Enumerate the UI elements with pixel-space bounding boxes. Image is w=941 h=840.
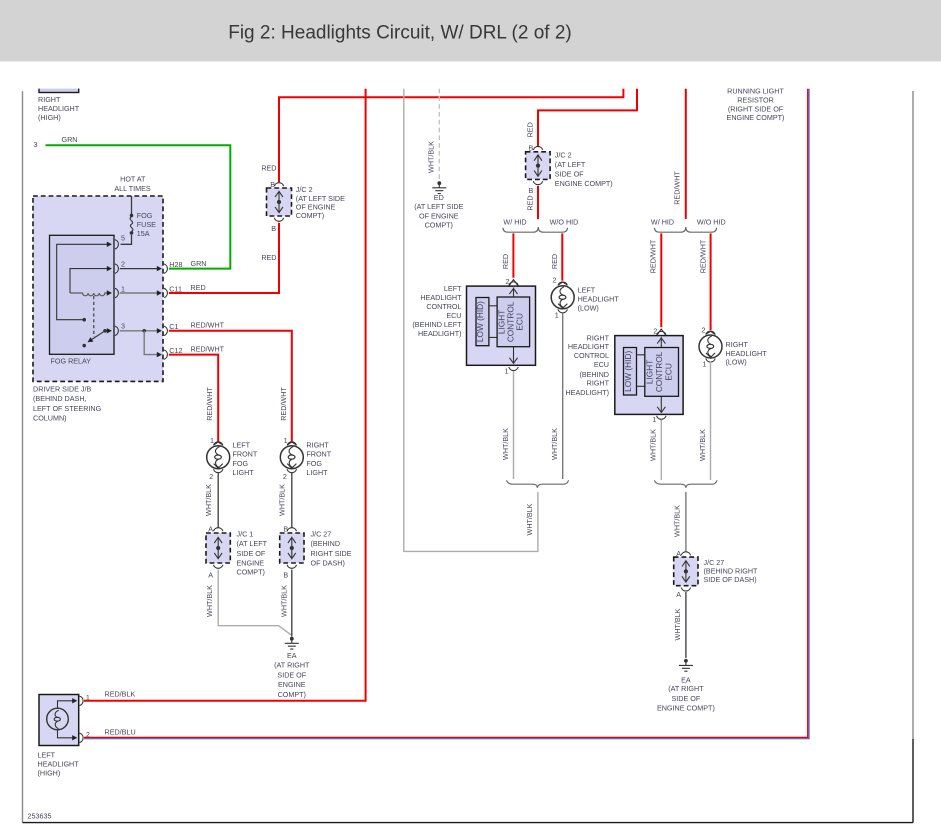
svg-text:WHT/BLK: WHT/BLK — [501, 428, 510, 460]
svg-text:(LOW): (LOW) — [578, 304, 599, 313]
relay switch blade — [90, 331, 105, 341]
svg-text:B: B — [271, 224, 276, 233]
fog fuse 15A — [130, 211, 156, 238]
wire relay pin1 to C11 — [120, 292, 161, 294]
svg-text:RED/WHT: RED/WHT — [698, 239, 707, 273]
svg-text:J/C 2: J/C 2 — [296, 185, 313, 194]
svg-text:(HIGH): (HIGH) — [38, 769, 61, 778]
svg-text:RED/WHT: RED/WHT — [205, 387, 214, 421]
svg-text:1: 1 — [505, 366, 509, 375]
junction connector J/C 1 — [214, 528, 223, 532]
wire GRN from right headlight high pin 3 to H28 — [46, 145, 231, 268]
svg-text:SIDE OF: SIDE OF — [672, 694, 701, 703]
svg-text:5: 5 — [121, 234, 125, 243]
svg-text:ED: ED — [434, 193, 444, 202]
svg-text:RIGHT: RIGHT — [306, 440, 329, 449]
svg-text:HEADLIGHT: HEADLIGHT — [568, 342, 610, 351]
svg-text:2: 2 — [553, 275, 557, 284]
svg-text:ALL TIMES: ALL TIMES — [114, 184, 151, 193]
svg-text:(BEHIND: (BEHIND — [579, 370, 609, 379]
svg-text:RED/WHT: RED/WHT — [673, 171, 682, 205]
svg-text:OF DASH): OF DASH) — [311, 558, 345, 567]
svg-text:WHT/BLK: WHT/BLK — [673, 608, 682, 640]
wire RED w/ HID branch to left ECU — [512, 233, 514, 277]
ground ED — [432, 181, 446, 193]
svg-text:(AT RIGHT: (AT RIGHT — [668, 684, 704, 693]
svg-text:RED: RED — [525, 195, 534, 210]
svg-text:FUSE: FUSE — [137, 220, 156, 229]
wire WHT/BLK merged left to off-page top — [404, 89, 538, 552]
svg-text:SIDE OF DASH): SIDE OF DASH) — [704, 575, 757, 584]
svg-text:COMPT): COMPT) — [296, 211, 324, 220]
driver side J/B dashed box — [33, 196, 163, 381]
svg-text:FOG: FOG — [306, 459, 322, 468]
svg-text:RESISTOR: RESISTOR — [737, 96, 774, 105]
svg-text:COMPT): COMPT) — [237, 568, 265, 577]
svg-text:COMPT): COMPT) — [425, 221, 453, 230]
svg-text:RED/WHT: RED/WHT — [279, 387, 288, 421]
ECU inner box LOW (HID) — [476, 298, 489, 346]
junction connector J/C 27 left — [287, 528, 296, 532]
svg-text:J/C 1: J/C 1 — [237, 530, 254, 539]
svg-text:HEADLIGHT: HEADLIGHT — [38, 760, 80, 769]
svg-text:RED: RED — [191, 283, 206, 292]
ECU internal arrow line — [513, 288, 515, 298]
wire WHT/BLK dashed to ground ED — [438, 89, 440, 181]
svg-text:WHT/BLK: WHT/BLK — [426, 141, 435, 173]
svg-text:LEFT OF STEERING: LEFT OF STEERING — [33, 404, 102, 413]
wire WHT/BLK left fog to J/C1 — [217, 472, 219, 528]
wire WHT/BLK left ECU pin1 down — [513, 371, 515, 479]
svg-text:RED: RED — [261, 253, 276, 262]
svg-text:HEADLIGHT): HEADLIGHT) — [418, 329, 462, 338]
svg-text:SIDE OF: SIDE OF — [277, 670, 306, 679]
svg-text:LEFT: LEFT — [444, 284, 462, 293]
svg-text:GRN: GRN — [62, 135, 78, 144]
svg-text:COLUMN): COLUMN) — [33, 414, 67, 423]
pin 1 left ECU — [509, 367, 518, 371]
svg-text:H28: H28 — [169, 260, 182, 269]
svg-text:COMPT): COMPT) — [278, 690, 306, 699]
left headlight control ECU box — [467, 286, 536, 365]
wire RED top run to J/C2 left — [279, 89, 623, 183]
wire RED w/o HID branch to left low bulb — [561, 233, 563, 280]
svg-text:15A: 15A — [137, 229, 150, 238]
svg-text:W/ HID: W/ HID — [503, 218, 526, 227]
svg-text:FOG: FOG — [137, 211, 153, 220]
wire RED/BLU red strand — [84, 89, 808, 738]
wire RED/WHT from top right run — [685, 89, 687, 219]
left headlight high internal wires — [58, 701, 76, 738]
svg-text:2: 2 — [121, 259, 125, 268]
relay pin 5 arrow and arc — [107, 242, 112, 247]
svg-text:ENGINE COMPT): ENGINE COMPT) — [727, 113, 785, 122]
right ECU internal arrow line — [660, 337, 662, 348]
svg-text:RED: RED — [525, 122, 534, 137]
svg-text:RED/WHT: RED/WHT — [649, 239, 658, 273]
svg-text:RED/WHT: RED/WHT — [191, 345, 225, 354]
svg-text:1: 1 — [210, 436, 214, 445]
svg-text:EA: EA — [681, 676, 691, 685]
wire WHT/BLK J/C27 left to ground EA — [291, 570, 293, 637]
junction dot relay contact — [82, 318, 86, 322]
pin 1 right ECU — [657, 416, 666, 420]
svg-text:FRONT: FRONT — [306, 450, 331, 459]
wire RED/BLU blue strand — [84, 89, 809, 739]
wire relay pin3 to C1 — [120, 330, 161, 332]
svg-text:RIGHT: RIGHT — [726, 340, 749, 349]
left headlight high bulb circle — [47, 708, 69, 730]
svg-text:ECU: ECU — [594, 360, 609, 369]
svg-text:OF ENGINE: OF ENGINE — [419, 212, 459, 221]
wire RED/BLK left headlight high pin1 to off-page top — [84, 89, 366, 701]
svg-text:(AT LEFT: (AT LEFT — [555, 160, 586, 169]
svg-text:(BEHIND: (BEHIND — [311, 539, 341, 548]
frame right border grey upper — [912, 91, 914, 739]
svg-text:WHT/BLK: WHT/BLK — [279, 585, 288, 617]
frame left border — [22, 91, 24, 822]
svg-text:(BEHIND LEFT: (BEHIND LEFT — [412, 320, 462, 329]
pin 1 left headlight high — [72, 698, 77, 703]
svg-text:EA: EA — [287, 651, 297, 660]
wire WHT/BLK right low bulb pin1 down — [710, 361, 712, 480]
wire WHT/BLK J/C1 to ground EA — [218, 570, 291, 636]
svg-text:RED/BLK: RED/BLK — [105, 690, 136, 699]
svg-text:2: 2 — [702, 326, 706, 335]
right headlight (high) clipped box — [38, 80, 80, 122]
wire RED/WHT w/ HID branch to right ECU — [660, 233, 662, 327]
wire WHT/BLK left low bulb pin1 down — [562, 312, 564, 479]
relay internal wire pin2 to coil — [70, 269, 110, 293]
wire fuse to relay pin 5 — [121, 235, 132, 245]
junction connector J/C 27 right — [681, 552, 690, 556]
svg-text:WHT/BLK: WHT/BLK — [649, 429, 658, 461]
svg-text:RIGHT: RIGHT — [38, 95, 61, 104]
right headlight (low) bulb — [699, 331, 722, 362]
svg-text:ENGINE COMPT): ENGINE COMPT) — [555, 179, 613, 188]
svg-text:1: 1 — [121, 284, 125, 293]
svg-text:A: A — [208, 571, 213, 580]
svg-text:J/C 2: J/C 2 — [555, 151, 572, 160]
brace merge right group — [654, 480, 717, 488]
brace split right group — [655, 227, 717, 232]
junction dot on pin3 wire — [142, 329, 146, 333]
left front fog light — [207, 442, 230, 473]
svg-text:B: B — [529, 186, 534, 195]
svg-text:3: 3 — [121, 321, 125, 330]
svg-text:DRIVER SIDE J/B: DRIVER SIDE J/B — [33, 384, 92, 393]
wire from box top to fog fuse — [131, 196, 133, 214]
svg-text:1: 1 — [555, 310, 559, 319]
svg-text:(HIGH): (HIGH) — [38, 113, 61, 122]
svg-text:RED/BLU: RED/BLU — [105, 727, 136, 736]
svg-text:RED: RED — [261, 163, 276, 172]
junction connector J/C 2 right — [533, 146, 542, 150]
wire relay pin2 to H28 — [120, 268, 161, 270]
svg-text:RIGHT: RIGHT — [587, 333, 610, 342]
svg-text:ECU: ECU — [663, 363, 673, 381]
svg-text:HEADLIGHT): HEADLIGHT) — [565, 388, 609, 397]
svg-text:RED/WHT: RED/WHT — [191, 321, 225, 330]
frame bottom border — [23, 822, 914, 824]
brace split left group — [503, 227, 567, 232]
relay pin 1 arrow and arc — [107, 290, 112, 295]
svg-text:ENGINE COMPT): ENGINE COMPT) — [657, 704, 715, 713]
wire RED top to J/C2 right — [538, 89, 637, 147]
relay pin 3 wire arrow and arc — [105, 330, 110, 332]
wire RED/WHT C12 to left front fog light — [169, 355, 218, 442]
relay pin 2 arrow and arc — [107, 266, 112, 271]
svg-text:WHT/BLK: WHT/BLK — [277, 484, 286, 516]
svg-text:(AT RIGHT: (AT RIGHT — [274, 661, 310, 670]
svg-text:LIGHT: LIGHT — [233, 468, 255, 477]
pin 2 left headlight high — [72, 735, 77, 740]
svg-text:LIGHT: LIGHT — [306, 468, 328, 477]
svg-text:HEADLIGHT: HEADLIGHT — [38, 104, 80, 113]
svg-text:3: 3 — [34, 140, 38, 149]
svg-text:FOG: FOG — [233, 459, 249, 468]
svg-text:FRONT: FRONT — [233, 450, 258, 459]
svg-text:LOW (HID): LOW (HID) — [623, 351, 633, 392]
wire RED/WHT C1 to right front fog light — [169, 331, 292, 442]
frame right border black lower — [912, 739, 914, 823]
svg-text:(AT LEFT: (AT LEFT — [237, 539, 268, 548]
svg-text:CONTROL: CONTROL — [574, 351, 609, 360]
svg-text:253635: 253635 — [28, 811, 52, 820]
svg-text:W/O HID: W/O HID — [550, 218, 579, 227]
svg-text:WHT/BLK: WHT/BLK — [205, 585, 214, 617]
svg-text:WHT/BLK: WHT/BLK — [204, 484, 213, 516]
ECU inner box LIGHT CONTROL ECU — [497, 297, 529, 347]
svg-text:Fig 2: Headlights Circuit, W/: Fig 2: Headlights Circuit, W/ DRL (2 of … — [228, 23, 572, 44]
right ECU inner box LIGHT CONTROL ECU — [645, 348, 679, 397]
svg-text:ECU: ECU — [515, 313, 525, 331]
ground EA right — [679, 659, 693, 671]
svg-text:RIGHT: RIGHT — [587, 379, 610, 388]
svg-text:LEFT: LEFT — [578, 285, 596, 294]
svg-text:CONTROL: CONTROL — [426, 302, 461, 311]
right headlight control ECU box — [615, 336, 683, 415]
wire WHT/BLK right fog to J/C27 — [291, 472, 293, 528]
svg-text:2: 2 — [283, 472, 287, 481]
ECU inner links — [489, 306, 497, 338]
right ECU inner links — [637, 355, 645, 387]
svg-text:W/ HID: W/ HID — [651, 218, 674, 227]
svg-text:2: 2 — [209, 472, 213, 481]
svg-text:RIGHT SIDE: RIGHT SIDE — [311, 549, 352, 558]
fog relay box — [50, 235, 115, 354]
svg-text:HOT AT: HOT AT — [120, 175, 146, 184]
svg-text:1: 1 — [703, 360, 707, 369]
wire junction to C12 — [144, 331, 160, 355]
svg-text:WHT/BLK: WHT/BLK — [698, 429, 707, 461]
right ECU inner box LOW (HID) — [624, 348, 637, 396]
wire RED J/C2 right down to brace — [537, 186, 539, 219]
relay switch contact dots — [103, 329, 107, 333]
svg-text:WHT/BLK: WHT/BLK — [550, 428, 559, 460]
junction connector J/C 2 left — [274, 183, 283, 187]
svg-text:LEFT: LEFT — [38, 751, 56, 760]
wire WHT/BLK right ECU pin1 down — [660, 420, 662, 480]
svg-text:J/C 27: J/C 27 — [311, 530, 332, 539]
wire RED J/C2 left to C11 — [169, 223, 279, 293]
svg-text:(BEHIND DASH,: (BEHIND DASH, — [33, 394, 87, 403]
svg-text:HEADLIGHT: HEADLIGHT — [420, 293, 462, 302]
wire RED/WHT w/o HID branch to right low bulb — [710, 233, 712, 330]
svg-text:HEADLIGHT: HEADLIGHT — [726, 349, 768, 358]
wire WHT/BLK J/C27 right to ground EA — [685, 592, 687, 658]
svg-text:A: A — [676, 590, 681, 599]
svg-text:GRN: GRN — [191, 259, 207, 268]
svg-text:(RIGHT SIDE OF: (RIGHT SIDE OF — [728, 104, 784, 113]
svg-text:WHT/BLK: WHT/BLK — [673, 505, 682, 537]
svg-text:W/O HID: W/O HID — [697, 218, 726, 227]
svg-text:ECU: ECU — [446, 311, 461, 320]
svg-text:1: 1 — [284, 436, 288, 445]
svg-text:LOW (HID): LOW (HID) — [475, 301, 485, 342]
svg-text:(LOW): (LOW) — [726, 358, 747, 367]
relay internal wire pin5 — [57, 244, 111, 319]
svg-text:RED: RED — [501, 254, 510, 269]
svg-text:(AT LEFT SIDE: (AT LEFT SIDE — [414, 202, 463, 211]
left headlight (low) bulb — [551, 282, 574, 313]
svg-text:FOG RELAY: FOG RELAY — [51, 357, 92, 366]
relay actuation dashed link — [93, 296, 95, 337]
right front fog light — [280, 442, 303, 473]
left headlight (high) box — [39, 695, 79, 746]
svg-text:SIDE OF: SIDE OF — [555, 170, 584, 179]
svg-text:B: B — [283, 571, 288, 580]
svg-text:HEADLIGHT: HEADLIGHT — [578, 294, 620, 303]
svg-text:WHT/BLK: WHT/BLK — [525, 503, 534, 535]
brace merge left group — [507, 480, 569, 488]
svg-text:LEFT: LEFT — [233, 440, 251, 449]
wire WHT/BLK merged right to J/C27 — [685, 492, 687, 552]
svg-text:ENGINE: ENGINE — [237, 558, 265, 567]
svg-text:SIDE OF: SIDE OF — [237, 549, 266, 558]
title bar — [0, 0, 941, 62]
relay coil — [70, 293, 110, 296]
ground EA left — [285, 637, 299, 649]
svg-text:1: 1 — [652, 415, 656, 424]
svg-text:RED: RED — [550, 254, 559, 269]
svg-text:ENGINE: ENGINE — [278, 680, 306, 689]
